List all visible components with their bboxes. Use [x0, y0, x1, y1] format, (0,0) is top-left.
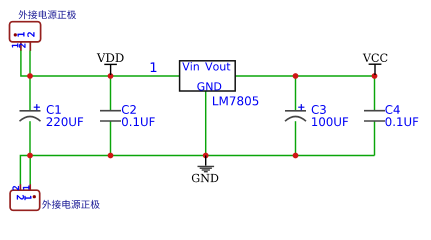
connector J2 pin number 2 — [13, 186, 19, 190]
capacitor C1 plate — [20, 110, 41, 112]
junction top rail / C1 — [27, 73, 33, 79]
label C4 — [385, 105, 399, 114]
regulator U1 LM7805 box — [180, 61, 236, 91]
wire VCC / C4 branch upper — [374, 76, 376, 111]
label C1 — [47, 105, 61, 114]
U1 pin label Vin — [182, 62, 199, 70]
junction top rail / VDD C2 — [108, 73, 114, 79]
junction ground rail / C1 — [27, 153, 33, 159]
connector J2 pin number 1 — [23, 186, 29, 190]
connector J2 pin-1 dot — [33, 195, 36, 198]
wire Vout rail — [235, 75, 374, 77]
wire C4 branch lower — [374, 121, 376, 156]
capacitor C3 curved plate — [285, 117, 306, 122]
connector J1 pin name 1 — [18, 32, 25, 36]
capacitor C2 plates — [100, 110, 121, 112]
connector J1 pin-1 dot — [14, 33, 17, 36]
junction ground rail / C2 — [108, 153, 114, 159]
power port VCC — [363, 54, 388, 76]
capacitor C3 plus sign — [298, 104, 304, 110]
label LM7805 — [213, 96, 258, 105]
wire pin2 down to junction — [29, 51, 31, 77]
label 220UF — [47, 117, 83, 126]
net label 1 — [151, 62, 157, 72]
connector J1 pin name 2 — [28, 32, 35, 36]
ground — [198, 156, 215, 172]
connector J2 pin name 1 — [25, 196, 32, 200]
capacitor C1 plus sign — [34, 104, 40, 110]
wire bottom connector pin1 — [29, 156, 31, 185]
label 外接电源正极 (top) — [19, 10, 77, 19]
connector J1 pin number 2 — [19, 44, 25, 48]
U1 pin label Vout — [205, 62, 230, 70]
wire pin1 to top rail — [21, 51, 30, 77]
wire U1 GND pin to ground rail — [205, 91, 207, 156]
junction Vout rail / C3 — [293, 73, 299, 79]
connector J2 pin name 2 — [17, 195, 24, 199]
connector J2 (bottom power input) — [10, 184, 40, 210]
label GND (ground net) — [192, 174, 218, 183]
connector J1 (top power input) — [10, 22, 41, 51]
power port VDD — [97, 53, 124, 75]
wire C3 branch upper — [295, 76, 297, 111]
wire C2 branch upper — [110, 76, 112, 111]
wire top rail net 1 — [30, 75, 180, 77]
label 100UF — [312, 117, 348, 126]
wire C1 branch lower — [29, 121, 31, 155]
junction ground rail / C3 — [293, 153, 299, 159]
capacitor C3 plate — [285, 110, 306, 112]
junction ground rail / GND — [203, 153, 209, 159]
label 外接电源正极 (bottom) — [42, 200, 99, 209]
capacitor C4 plates — [364, 110, 385, 112]
label 0.1UF (C2) — [122, 117, 155, 126]
connector J1 pin number 1 — [12, 44, 18, 48]
junction Vout rail / VCC — [372, 73, 378, 79]
label C2 — [122, 105, 136, 114]
label C3 — [312, 105, 326, 114]
wire bottom ground rail — [20, 156, 374, 185]
label 0.1UF (C4) — [386, 117, 419, 126]
U1 pin label GND — [197, 82, 221, 90]
wire C3 branch lower — [295, 121, 297, 155]
wire C2 branch lower — [110, 121, 112, 156]
wire C1 branch upper — [29, 76, 31, 111]
capacitor C1 curved plate — [20, 117, 41, 122]
